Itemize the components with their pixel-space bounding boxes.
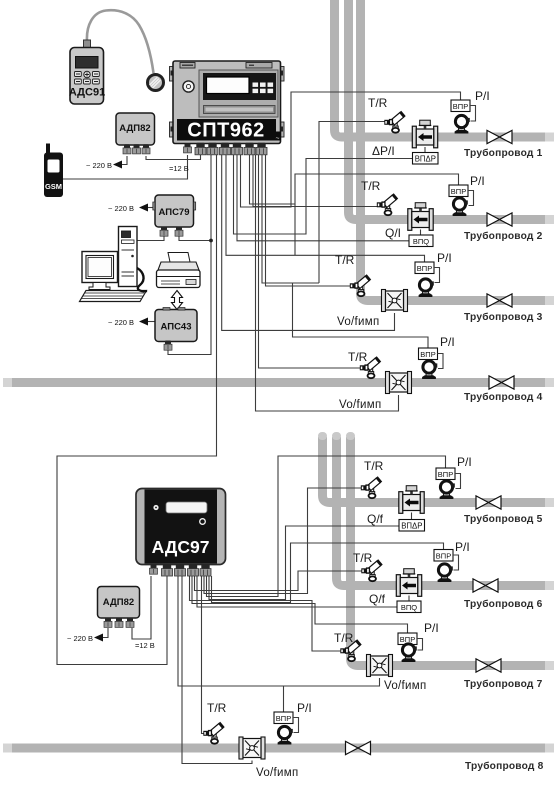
computer (monitor, tower, keyboard) [80, 227, 147, 302]
wire bus СПТ962 gland2 to АПС79/АПС43 [168, 155, 211, 355]
label ~220 В (АПС79) with arrow [139, 204, 148, 212]
box ВПР4 [419, 348, 438, 360]
glands under СПТ962 [184, 143, 192, 153]
transducer T/R 4 [360, 356, 381, 378]
GSM phone [44, 144, 63, 198]
flow meter ВПQ6 [396, 569, 421, 597]
svg-text:Трубопровод 6: Трубопровод 6 [464, 598, 543, 610]
wire T/R4: gland6a down, right to T/R4 [259, 155, 362, 368]
svg-text:~ 220 В: ~ 220 В [108, 318, 134, 327]
wire ВПР2: gland5b down, jog, up, right to ВПР2 stub [250, 155, 459, 204]
svg-text:Q/f: Q/f [367, 512, 384, 526]
svg-text:АДП82: АДП82 [119, 123, 150, 134]
flow meter ВПQ2 [408, 203, 433, 231]
pipe Трубопровод 4 (full width) [12, 378, 545, 387]
valve 1 [487, 130, 512, 143]
svg-text:~: ~ [276, 135, 280, 142]
transmitter P/I 5 [440, 481, 455, 499]
label ~220 В (АДП82 top) with arrow [113, 161, 122, 169]
box ВПР2 [449, 185, 468, 197]
glands under АДС97 [150, 565, 158, 575]
wire T/R6: АДС97 gland4c down, right, up to T/R6 [195, 571, 363, 591]
svg-text:АПС79: АПС79 [159, 207, 190, 218]
svg-text:ВПΔР: ВПΔР [401, 522, 422, 531]
adapter АПС43 [155, 308, 197, 342]
box ВПР5 [436, 468, 455, 480]
adapter АПС79 [153, 195, 196, 227]
transducer T/R 8 [203, 722, 224, 744]
wire ВПР1: gland4c down, right, up, right to ВПР1 stub [241, 92, 461, 207]
pipe riser group 1 (three vertical pipes top) [335, 0, 546, 301]
transmitter P/I 8 [278, 726, 293, 744]
power adapter АДП82 (bottom) [98, 587, 140, 619]
svg-text:T/R: T/R [353, 551, 373, 565]
wire ~220V to АДП82 (bottom) [103, 628, 108, 638]
wire T/R7: АДС97 gland4a down, right, up to T/R7 [190, 576, 342, 651]
transducer T/R 2 [377, 193, 398, 215]
svg-text:Трубопровод 5: Трубопровод 5 [464, 513, 543, 525]
wire ВПР8 stub branch [283, 686, 285, 712]
svg-text:Трубопровод 8: Трубопровод 8 [465, 760, 544, 772]
pipe end caps bottom group [545, 498, 554, 670]
pipe vertical V5 into Трубопровод 6 [337, 437, 546, 586]
svg-text:P/I: P/I [437, 251, 452, 265]
transmitter P/I 4 [422, 361, 437, 379]
svg-text:P/I: P/I [457, 455, 472, 469]
pipe riser group 2 (three vertical pipes bottom) [323, 437, 546, 666]
box ВПР7 [398, 633, 417, 645]
svg-text:ВПР: ВПР [420, 350, 435, 359]
node junction АПС79/bus [209, 239, 213, 243]
wire segment x295 down to ВПР3 feeder [294, 204, 296, 255]
wire T/R2: gland5a down, right to T/R2 [253, 155, 379, 207]
wire АПС79 right gland to bus junction [179, 235, 211, 241]
bidirectional arrow printer/АПС43 [172, 291, 183, 310]
svg-text:P/I: P/I [440, 335, 455, 349]
transmitter P/I 6 [438, 564, 453, 582]
pipe vertical V3 into Трубопровод 3 [361, 0, 546, 301]
svg-text:Vo/fимп: Vo/fимп [337, 316, 379, 328]
svg-text:ВПР: ВПР [453, 102, 468, 111]
wire T/R1: from crossing at y283 up to y121.5 right to T/R1 [319, 122, 386, 284]
svg-text:P/I: P/I [297, 701, 312, 715]
flow meter Vo7 (turbine) [367, 655, 393, 677]
valve 4 [489, 376, 514, 389]
svg-text:ВПQ: ВПQ [401, 603, 417, 612]
transmitter P/I 2 [453, 198, 468, 216]
pipe vertical V6 into Трубопровод 7 [351, 437, 546, 666]
pipe top caps bottom group [318, 432, 355, 440]
svg-text:P/I: P/I [424, 621, 439, 635]
svg-text:ВПР: ВПР [451, 187, 466, 196]
transducer T/R 5 [361, 476, 382, 498]
svg-text:ВПР: ВПР [276, 714, 291, 723]
svg-text:~ 220 В: ~ 220 В [108, 204, 134, 213]
wire ВПР6: АДС97 gland5e down, right, up, right to ВПР6 stub [212, 543, 444, 603]
svg-text:ВПР: ВПР [436, 552, 451, 561]
box ВПР1 [451, 100, 470, 112]
wire =12V АДП82 to СПТ962 gland1 [146, 155, 201, 160]
svg-text:T/R: T/R [348, 350, 368, 364]
flow meter Vo8 (turbine) [239, 737, 265, 759]
svg-text:ΔP/I: ΔP/I [372, 144, 395, 158]
wire Q/f6: АДС97 gland4d down, right to ВПQ6 box [197, 576, 397, 607]
transmitter P/I 1 [455, 115, 470, 133]
valve 5 [476, 496, 501, 509]
wire bus СПТ962 gland2b down-left-down to АДС97 gland2 [57, 155, 217, 665]
valve 6 [473, 579, 498, 592]
svg-text:P/I: P/I [470, 174, 485, 188]
wire Vo8: АДС97 gland3b down, right to flow meter 8 [182, 576, 252, 764]
wire Vo3: gland3a down, right to flow meter 3 [222, 155, 395, 330]
flow meter ВПДР5 (orifice) [399, 486, 424, 514]
controller АДС97 [136, 489, 226, 565]
valve 8 [346, 741, 371, 754]
svg-text:АПС43: АПС43 [161, 322, 192, 333]
wire ВПР4: gland6b down, right, down, right to ВПР4 stub [262, 155, 428, 348]
valve 7 [476, 659, 501, 672]
svg-text:T/R: T/R [207, 701, 227, 715]
wire =12V АДП82-2 to АДС97 gland1 [132, 576, 151, 639]
svg-text:T/R: T/R [334, 631, 354, 645]
flow meter ВПДР1 (orifice) [412, 120, 437, 148]
printer [157, 253, 201, 288]
connector (optical port) on СПТ962 [148, 75, 164, 91]
svg-text:Трубопровод 2: Трубопровод 2 [464, 230, 543, 242]
svg-text:Q/I: Q/I [385, 226, 401, 240]
transmitter P/I 3 [419, 279, 434, 297]
svg-text:GSM: GSM [45, 182, 62, 191]
wire T/R5: АДС97 gland5b down, right, up to T/R5 [204, 488, 363, 594]
pipe Трубопровод 8 (full width) [12, 744, 545, 753]
pipe end caps top group [545, 133, 554, 306]
box ВПР8 [274, 712, 293, 724]
svg-text:T/R: T/R [335, 253, 355, 267]
transducer T/R 6 [361, 559, 382, 581]
svg-text:Трубопровод 4: Трубопровод 4 [464, 391, 543, 403]
cable АДС91 to СПТ962 optical connector [87, 10, 154, 73]
svg-text:T/R: T/R [361, 179, 381, 193]
svg-text:Трубопровод 1: Трубопровод 1 [464, 147, 543, 159]
wire T/R3: gland6c down, right to T/R3 [266, 155, 352, 286]
power adapter АДП82 (top) [116, 113, 155, 145]
controller СПТ962 [170, 61, 285, 144]
pipe vertical V1 into Трубопровод 1 [335, 0, 546, 137]
svg-text:=12 В: =12 В [135, 641, 155, 650]
wire ВПР7: АДС97 gland4b down, right, down, right to ВПР7 stub [192, 576, 408, 633]
svg-text:Vo/fимп: Vo/fимп [256, 767, 298, 779]
svg-text:АДС97: АДС97 [152, 537, 210, 557]
svg-text:ВПР: ВПР [417, 264, 432, 273]
transducer T/R 3 [350, 274, 371, 296]
transducer T/R 7 [340, 639, 361, 661]
transducer T/R 1 [384, 111, 405, 133]
wire ВПQ2: gland4b down, right to ВПQ2 box [237, 155, 409, 241]
valve 2 [487, 213, 512, 226]
wire ~220V to АПС43 [148, 321, 155, 323]
flow meter Vo3 (turbine) [382, 290, 408, 312]
svg-text:P/I: P/I [475, 89, 490, 103]
svg-text:T/R: T/R [368, 96, 388, 110]
svg-text:Vo/fимп: Vo/fимп [384, 680, 426, 692]
wire ΔP/I1: gland4a down, over to ВПДР1 box [234, 155, 414, 234]
svg-text:Vo/fимп: Vo/fимп [339, 399, 381, 411]
svg-text:~ 220 В: ~ 220 В [86, 161, 112, 170]
wire ~220V to АДП82 (top) [122, 156, 127, 165]
svg-text:АДП82: АДП82 [103, 597, 134, 608]
pipe vertical V2 into Трубопровод 2 [349, 0, 546, 220]
svg-text:Q/f: Q/f [369, 592, 386, 606]
svg-text:Трубопровод 3: Трубопровод 3 [464, 311, 543, 323]
svg-text:ВПΔР: ВПΔР [415, 155, 436, 164]
valve 3 [487, 294, 512, 307]
svg-text:АДС91: АДС91 [69, 87, 105, 99]
transmitter P/I 7 [402, 644, 417, 662]
box ВПР3 [415, 262, 434, 274]
flow meter Vo4 (turbine) [386, 372, 412, 394]
wire ВПР5: АДС97 gland5c down, right, up, right to ВПР5 stub [207, 456, 446, 597]
device АДС91 (handheld terminal) [69, 40, 105, 104]
wire T/R8: АДС97 gland5a down, right to T/R8 [202, 576, 206, 734]
svg-text:~ 220 В: ~ 220 В [67, 634, 93, 643]
wire Q/f5: АДС97 gland5d down, right, up, right to ВПДР5 box [209, 526, 399, 600]
svg-text:ВПQ: ВПQ [413, 237, 429, 246]
svg-text:ВПР: ВПР [438, 470, 453, 479]
wire GSM to СПТ962 gland0 [63, 155, 188, 179]
wire ВПР3: gland3b down, right to ВПР3 stub [226, 155, 425, 262]
wire Vo4: gland5c down, right to flow meter 4 [256, 155, 399, 411]
keyboard/mouse cable [137, 268, 147, 291]
svg-text:T/R: T/R [364, 459, 384, 473]
pipe vertical V4 into Трубопровод 5 [323, 437, 546, 503]
wire ~220V to АПС79 [148, 207, 155, 209]
svg-text:Трубопровод 7: Трубопровод 7 [464, 678, 543, 690]
label ~220 В (АПС43) with arrow [139, 318, 148, 326]
wire ВПР8 and Vo7: АДС97 gland3a down, right across [178, 576, 380, 686]
wire АПС79 left gland to computer [136, 235, 164, 241]
svg-text:=12 В: =12 В [169, 164, 189, 173]
svg-text:СПТ962: СПТ962 [187, 120, 264, 142]
box ВПР6 [434, 550, 453, 562]
svg-text:P/I: P/I [455, 540, 470, 554]
label ~220 В (АДП82 bottom) with arrow [94, 634, 103, 642]
